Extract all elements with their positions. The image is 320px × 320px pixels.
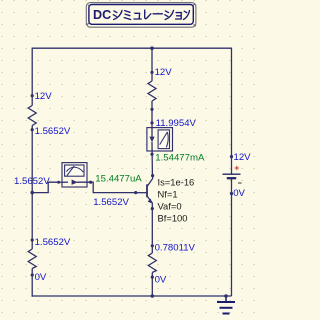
- node 12V middle: [150, 71, 153, 74]
- node base pin: [134, 191, 137, 194]
- wire middle above ammeter: [151, 101, 153, 128]
- ammeter probe PR2: [147, 127, 173, 151]
- node PR1 right pin: [89, 181, 92, 184]
- junction top: [150, 46, 154, 50]
- wire right vertical lower: [231, 178, 233, 296]
- node 0V right: [230, 192, 233, 195]
- svg-text:Vaf=0: Vaf=0: [158, 200, 182, 211]
- wire ammeter out to base: [77, 182, 136, 192]
- svg-text:1.54477mA: 1.54477mA: [155, 152, 205, 163]
- resistor R4: [148, 253, 156, 273]
- wire emitter down: [151, 209, 153, 254]
- node emitter pin: [151, 207, 154, 210]
- ammeter probe PR1: [59, 163, 88, 187]
- svg-text:Bf=100: Bf=100: [158, 212, 188, 223]
- node R3 bottom pin: [150, 108, 153, 111]
- node collector pin: [151, 174, 154, 177]
- svg-text:15.4477uA: 15.4477uA: [95, 174, 142, 185]
- junction base-divider: [30, 191, 34, 195]
- DC simulation title text: [93, 8, 190, 22]
- node 12V left: [31, 94, 34, 97]
- wire right vertical upper: [231, 48, 233, 175]
- svg-text:12V: 12V: [35, 91, 53, 102]
- svg-text:Is=1e-16: Is=1e-16: [158, 176, 195, 187]
- battery V1: [223, 166, 242, 183]
- svg-text:1.5652V: 1.5652V: [93, 197, 129, 208]
- wire left vertical upper: [31, 48, 33, 106]
- node 0V middle: [151, 276, 154, 279]
- junction bottom: [151, 294, 155, 298]
- wire middle below ammeter to collector: [151, 142, 153, 176]
- wire top horizontal: [32, 47, 231, 49]
- node PR1 left pin: [57, 181, 60, 184]
- svg-text:11.9954V: 11.9954V: [156, 118, 197, 129]
- node 0.78011V: [151, 244, 154, 247]
- node 12V right: [230, 155, 233, 158]
- wire left vertical lower: [31, 269, 33, 297]
- wire emitter resistor to bottom: [151, 273, 153, 297]
- svg-text:0.78011V: 0.78011V: [155, 243, 196, 254]
- transistor Q1: [136, 176, 153, 209]
- svg-text:12V: 12V: [234, 152, 252, 163]
- junction ground: [224, 294, 228, 298]
- transistor parameters text: [158, 176, 195, 223]
- svg-text:0V: 0V: [155, 275, 167, 286]
- node 11.9954V: [150, 121, 153, 124]
- resistor R3: [148, 81, 156, 101]
- svg-text:0V: 0V: [233, 188, 245, 199]
- resistor R1: [28, 106, 36, 126]
- svg-text:1.5652V: 1.5652V: [35, 126, 71, 137]
- node 1.5652V left: [31, 128, 34, 131]
- svg-text:DC: DC: [93, 8, 111, 22]
- wire middle vertical upper: [151, 48, 153, 81]
- wire bottom horizontal: [32, 295, 232, 297]
- resistor R2: [28, 249, 36, 269]
- DC simulation box SIM1: [86, 3, 196, 28]
- svg-text:1.5652V: 1.5652V: [35, 237, 71, 248]
- svg-text:12V: 12V: [155, 67, 173, 78]
- wire left vertical middle: [31, 126, 33, 250]
- svg-text:0V: 0V: [35, 272, 47, 283]
- svg-text:Nf=1: Nf=1: [158, 188, 178, 199]
- node 0V left: [31, 273, 34, 276]
- svg-text:1.5652V: 1.5652V: [14, 176, 50, 187]
- node 1.5652V lower: [31, 238, 34, 241]
- node 1.54477mA: [150, 153, 153, 156]
- ground: [217, 296, 235, 314]
- wire base path: left junction to ammeter: [32, 182, 58, 192]
